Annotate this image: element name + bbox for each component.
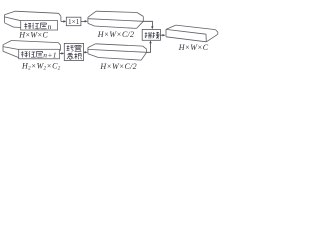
slab3 right-end top bevel xyxy=(143,46,147,49)
slab2 right-end lower bevel xyxy=(137,21,144,28)
slab2 right-end top bevel xyxy=(137,13,143,17)
box 1x1 xyxy=(66,17,81,26)
slab2 front-top edge xyxy=(88,19,143,22)
slab2 back-top edge xyxy=(96,11,137,12)
wire slab1 -> 1x1 xyxy=(61,20,64,22)
wire slab3 -> 拼接 (right then up) xyxy=(147,43,151,53)
slab4 front-top edge (to label corner) xyxy=(3,47,19,50)
slab1 right-end edge xyxy=(60,16,62,21)
box 转置卷积 xyxy=(64,43,83,60)
slab1 front-top edge (to label corner) xyxy=(5,17,21,21)
slab2 left vertical edge xyxy=(87,17,89,23)
slab3 front-top edge xyxy=(88,49,147,52)
slab2 front-bottom edge xyxy=(94,26,137,28)
svg-text:n: n xyxy=(48,22,52,31)
slab1 bottom-left bevel xyxy=(5,23,14,27)
slab5 front-top edge xyxy=(166,29,206,34)
slab4 bottom-left bevel xyxy=(3,51,19,57)
svg-text:H×W×C: H×W×C xyxy=(18,31,48,40)
slab5 right-end top bevel xyxy=(215,30,217,32)
svg-text:n+1: n+1 xyxy=(43,50,57,59)
slab2 right-end edge xyxy=(142,16,144,21)
label box 特征层n+1 xyxy=(19,49,60,59)
slab4 left vertical edge xyxy=(2,45,4,51)
svg-text:H2×W2×C2: H2×W2×C2 xyxy=(21,61,61,71)
slab5 bevel top-left xyxy=(166,25,176,29)
slab1 bevel top-left xyxy=(5,11,16,15)
slab3 back-top edge xyxy=(95,44,142,46)
slab1 left vertical edge xyxy=(4,15,6,23)
slab1 front-bottom edge xyxy=(14,27,58,29)
slab3 bottom-left bevel xyxy=(88,54,99,58)
slab5 front-bottom edge xyxy=(166,37,206,42)
slab5 front right edge xyxy=(205,34,207,42)
wire slab2 -> 拼接 (right then down) xyxy=(143,21,152,27)
slab3 right-end lower bevel xyxy=(141,52,146,60)
wire slab4 -> 转置卷积 xyxy=(60,52,63,54)
slab3 bevel top-left xyxy=(88,44,96,48)
slab3 left vertical edge xyxy=(87,48,89,54)
svg-text:H×W×C: H×W×C xyxy=(178,43,209,52)
slab4 right-end top bevel xyxy=(58,43,60,46)
svg-text:H×W×C/2: H×W×C/2 xyxy=(97,30,135,39)
slab1 back-top edge xyxy=(15,11,59,13)
svg-text:H×W×C/2: H×W×C/2 xyxy=(99,62,137,71)
slab3 right-end edge xyxy=(146,49,148,52)
label box 特征层n xyxy=(21,21,58,31)
slab4 back-top edge xyxy=(11,41,58,43)
wire 拼接 -> right slab xyxy=(160,34,163,36)
slab2 bevel top-left xyxy=(88,11,96,17)
svg-text:1×1: 1×1 xyxy=(68,18,80,26)
slab5 left vertical edge xyxy=(165,29,167,36)
slab1 right-end top bevel xyxy=(59,13,61,16)
box 拼接 xyxy=(142,29,160,40)
slab4 right-end edge xyxy=(60,45,62,50)
slab2 bottom-left bevel xyxy=(88,23,94,25)
slab3 front-bottom edge xyxy=(98,58,141,61)
wire 转置卷积 -> slab3 xyxy=(84,51,86,53)
wire 1x1 -> slab2 xyxy=(81,20,85,22)
slab4 bevel top-left xyxy=(3,41,11,45)
slab5 right-end edge xyxy=(217,32,219,34)
slab5 right-end bottom bevel xyxy=(206,34,218,42)
slab5 back-top edge xyxy=(176,25,216,30)
